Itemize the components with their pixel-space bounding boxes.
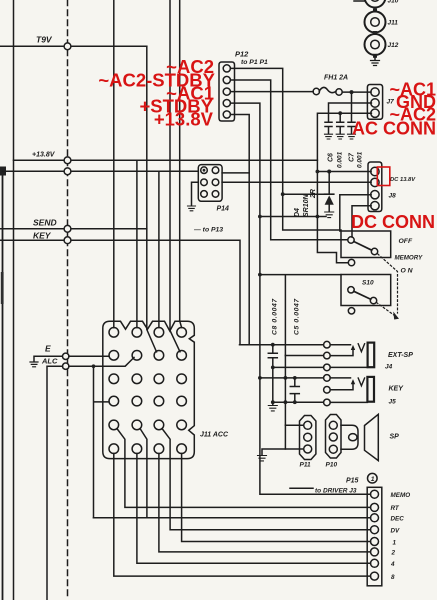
wire J12 to ground bbox=[374, 55, 376, 60]
ground D4 anode bbox=[325, 212, 334, 218]
svg-text:MEMO: MEMO bbox=[391, 492, 411, 499]
svg-text:KEY: KEY bbox=[33, 231, 52, 241]
connector J7 body bbox=[367, 85, 382, 120]
wire E to ACC r2c1 bbox=[69, 355, 109, 357]
wire junction down to cap bbox=[339, 113, 341, 122]
svg-text:OFF: OFF bbox=[399, 238, 413, 245]
wire left edge vertical bbox=[2, 171, 4, 600]
svg-text:to DRIVER J3: to DRIVER J3 bbox=[315, 488, 357, 495]
connector P15 pin 4 bbox=[371, 526, 379, 534]
junction dot ALC branch bbox=[92, 364, 96, 368]
svg-text:S10: S10 bbox=[362, 280, 374, 287]
ACC pin r1c2 bbox=[132, 328, 142, 338]
svg-text:FH1 2A: FH1 2A bbox=[324, 75, 348, 82]
connector P12 body bbox=[219, 62, 235, 121]
connector P15 body bbox=[367, 487, 382, 586]
connector P14 pin 4 bbox=[212, 179, 219, 186]
svg-text:SP: SP bbox=[390, 434, 400, 441]
connector J8 pin 1 bbox=[371, 167, 379, 175]
svg-text:— to P13: — to P13 bbox=[193, 227, 223, 234]
wire bus vertical to ACC col2 from 13.8V line bbox=[136, 160, 138, 327]
ground P11 feed bbox=[258, 456, 267, 461]
svg-text:4: 4 bbox=[390, 561, 395, 568]
wire bus vertical to ACC col1 bbox=[113, 0, 115, 328]
node circle EXT sleeve bbox=[324, 352, 331, 359]
junction dot C8 bottom bbox=[271, 400, 275, 404]
svg-text:to P1 P1: to P1 P1 bbox=[241, 59, 268, 66]
svg-text:EXT-SP: EXT-SP bbox=[388, 352, 413, 359]
switch lower arm bbox=[354, 291, 371, 299]
scan mark left edge bbox=[1, 272, 4, 304]
wire left bus vertical 1 bbox=[13, 0, 15, 600]
wire ACC r5c2 diagonal down to P15 pin3 line bbox=[140, 429, 147, 518]
svg-text:2R: 2R bbox=[310, 189, 317, 199]
wire P11 pin3 feed with ground bbox=[262, 449, 303, 455]
junction dot pin4 vertical y216 bbox=[258, 215, 262, 219]
dotted linkage upper bbox=[378, 254, 398, 313]
svg-text:C7: C7 bbox=[349, 152, 356, 162]
svg-text:DV: DV bbox=[391, 528, 401, 535]
jack J4 arrow bbox=[330, 349, 353, 356]
ACC pin r6c4 bbox=[177, 444, 187, 454]
connector P10 pin 3 bbox=[329, 445, 337, 453]
ground P14 bbox=[188, 206, 196, 211]
arrowhead linkage bbox=[393, 312, 399, 320]
svg-text:D4: D4 bbox=[294, 208, 301, 217]
node square between J10 and J11 bbox=[373, 8, 377, 12]
wire bus vertical to ACC r2c4 (diagonal at bottom) bbox=[170, 0, 180, 352]
ACC pin r2c4 bbox=[177, 351, 187, 361]
ACC pin r1c4 bbox=[177, 328, 187, 338]
ACC pin r3c2 bbox=[132, 374, 142, 384]
junction dot C5 top bbox=[293, 376, 297, 380]
wire T9V horizontal bbox=[0, 45, 147, 47]
ACC pin r1c1 bbox=[109, 328, 119, 338]
connector J7 pin 2 bbox=[371, 99, 379, 107]
node circle T9V on dashed bus bbox=[64, 43, 71, 50]
capacitor C6 0.001 bbox=[337, 122, 344, 134]
connector J8 body bbox=[368, 162, 382, 212]
connector P15 pin 5 bbox=[371, 538, 379, 546]
svg-text:C6: C6 bbox=[328, 153, 335, 162]
connector P12 pin 5 bbox=[223, 111, 230, 118]
connector P10 pin 1 bbox=[329, 421, 337, 429]
junction dot D4 cathode branch on pin1 wire bbox=[327, 170, 331, 174]
wire P15 pin3 DEC horizontal bbox=[94, 517, 371, 519]
wire x285 down to P11 feed bbox=[284, 356, 286, 450]
svg-text:DEC: DEC bbox=[391, 516, 405, 523]
ground under cap C7 bbox=[348, 134, 356, 139]
wire ACC r5c1 diagonal down to P15 pin2 RT bbox=[117, 429, 371, 508]
svg-text:P15: P15 bbox=[346, 478, 359, 485]
svg-text:E: E bbox=[45, 344, 51, 354]
wire fuse junction down to cap bbox=[351, 92, 353, 122]
wire P14 ground stub bbox=[192, 182, 199, 205]
switch upper throw contact bbox=[371, 248, 377, 254]
wire P14 to J8 pin2 bbox=[222, 181, 371, 183]
svg-text:J11: J11 bbox=[388, 20, 399, 27]
wire from pin4-vertical to D4 ground area bbox=[260, 216, 326, 218]
wire ALC right with diagonal to ACC r2c2 bbox=[69, 357, 134, 366]
svg-text:RT: RT bbox=[391, 505, 400, 512]
wire EXT-SP tip line bbox=[240, 344, 324, 346]
svg-text:0.001: 0.001 bbox=[337, 151, 344, 168]
svg-text:DC CONN: DC CONN bbox=[351, 212, 435, 232]
switch lower pole contact bbox=[348, 287, 354, 293]
connector P11 body bbox=[300, 416, 316, 460]
annotation red box DC 13.8V bbox=[377, 167, 390, 186]
connector P14 pin 3 bbox=[201, 179, 208, 186]
connector J7 pin 3 bbox=[371, 109, 379, 117]
node square between J11 and J12 bbox=[373, 31, 377, 35]
switch upper arm bbox=[354, 242, 372, 251]
svg-text:1: 1 bbox=[371, 476, 375, 483]
svg-text:0.001: 0.001 bbox=[357, 151, 364, 168]
svg-text:J11 ACC: J11 ACC bbox=[200, 432, 229, 439]
connector P14 pin 1 (marked) bbox=[201, 167, 208, 174]
ACC pin r5c1 bbox=[109, 420, 119, 430]
node circle KEY on dashed bus bbox=[64, 237, 71, 244]
junction dot C5 bottom bbox=[293, 400, 297, 404]
node square below J12 bbox=[373, 54, 377, 58]
junction dot on J7 pin3 wire bbox=[338, 111, 342, 115]
node circle ALC terminal bbox=[62, 363, 68, 369]
ACC pin r5c4 bbox=[177, 420, 187, 430]
connector P12 pin 2 bbox=[223, 76, 230, 83]
svg-text:C5 0.0047: C5 0.0047 bbox=[294, 298, 301, 335]
wire KEY ring line bbox=[273, 401, 324, 403]
wire EXT-SP ring line from C8 bbox=[273, 366, 324, 368]
svg-text:SR10N: SR10N bbox=[303, 193, 310, 217]
node circle EXT ring bbox=[324, 364, 331, 371]
capacitor at x328.5 bbox=[325, 122, 332, 134]
node circle y171 on dashed bus bbox=[64, 168, 71, 175]
capacitor C8 0.0047 bbox=[268, 345, 277, 403]
wire ACC r6c4 down to P15 pin5 bbox=[182, 454, 371, 542]
wire P12 pin4 down long to P15 MEMO bbox=[230, 103, 370, 494]
junction dot D4 cathode wire on P12 pin1 vertical bbox=[281, 192, 285, 196]
connector P14 pin 5 bbox=[201, 191, 208, 198]
junction dot C8 at EXT sleeve2 line bbox=[271, 366, 275, 370]
svg-text:T9V: T9V bbox=[36, 35, 53, 45]
node circle KEY ring bbox=[324, 399, 331, 406]
junction dot x285 on KEY tip line bbox=[284, 376, 288, 380]
svg-text:J4: J4 bbox=[385, 364, 393, 371]
ACC pin r6c1 bbox=[109, 444, 119, 454]
wire branch y274.6 right to switch box and down to EXT-SP sleeve line bbox=[260, 275, 341, 356]
wire KEY ring to bar bbox=[330, 401, 367, 403]
junction dot rail at pin1 wire bbox=[316, 170, 320, 174]
wire P10 loop to speaker bbox=[341, 425, 358, 449]
junction dot x285 on KEY ring line bbox=[284, 400, 288, 404]
ground under cap C6 bbox=[336, 134, 344, 139]
connector P12 pin 4 bbox=[223, 100, 230, 107]
wire ALC left then down to page bottom bbox=[47, 366, 63, 600]
wire KEY tip line bbox=[260, 377, 324, 379]
ACC pin r5c2 bbox=[132, 420, 142, 430]
wire SEND horizontal bbox=[0, 228, 147, 230]
svg-text:ALC: ALC bbox=[41, 357, 58, 366]
ground below J12 bbox=[371, 61, 380, 66]
junction dot pin4 line KEY-tip branch bbox=[258, 376, 262, 380]
wire P12 pin1 right, down, to switch box top bbox=[230, 68, 341, 230]
dotted linkage lower diagonal bbox=[377, 303, 395, 316]
svg-text:DC 13.8V: DC 13.8V bbox=[390, 177, 416, 183]
connector J11 ACC body bbox=[103, 321, 195, 458]
ACC pin r2c3 bbox=[154, 351, 164, 361]
wire P11 pin1 feed bbox=[285, 424, 302, 426]
wire fuse to J7 pin1 bbox=[342, 91, 371, 93]
ACC pin r6c3 bbox=[154, 444, 164, 454]
ACC pin r2c1 bbox=[109, 351, 119, 361]
wire C8 to ground bbox=[272, 402, 274, 405]
fuse FH1 2A bbox=[313, 87, 342, 95]
connector P15 pin 1 bbox=[371, 490, 379, 498]
switch upper pole contact bbox=[348, 237, 354, 243]
ACC pin r1c3 bbox=[154, 328, 164, 338]
diode D4 (cathode up) bbox=[325, 172, 334, 212]
node circle SEND on dashed bus bbox=[64, 225, 71, 232]
ACC pin r4c3 bbox=[154, 396, 164, 406]
connector P14 body bbox=[198, 165, 222, 202]
connector P10 pin 2 bbox=[329, 433, 337, 441]
speaker SP bbox=[365, 414, 379, 460]
wire dashed bus vertical bbox=[67, 0, 69, 600]
svg-text:J12: J12 bbox=[388, 42, 399, 49]
svg-text:C8 0.0047: C8 0.0047 bbox=[272, 298, 279, 335]
node circle KEY sleeve bbox=[324, 387, 331, 394]
svg-text:2: 2 bbox=[391, 550, 396, 557]
wire ACC r6c1 down to P15 pin8 bbox=[114, 454, 371, 577]
wire branch down to ACC r4c1 and P15 pin3 line bbox=[94, 366, 110, 518]
connector J8 pin 2 bbox=[371, 178, 379, 186]
svg-text:+13.8V: +13.8V bbox=[32, 152, 56, 159]
jack J12 bbox=[365, 34, 386, 55]
svg-text:J10: J10 bbox=[388, 0, 399, 5]
connector J7 pin 1 bbox=[371, 88, 379, 96]
wire P12-pin1 vertical to D4 cathode bbox=[283, 193, 325, 195]
svg-text:P10: P10 bbox=[326, 462, 338, 469]
capacitor C5 0.0047 bbox=[290, 378, 299, 402]
node circle KEY tip bbox=[324, 375, 331, 382]
jack J5 arrow bbox=[330, 383, 353, 390]
wire J8 pin3 left then down to switch box bbox=[340, 195, 371, 231]
wire horizontal y171 to P14 bbox=[3, 170, 199, 172]
ACC pin r3c3 bbox=[154, 374, 164, 384]
switch lower throw contact bbox=[370, 297, 376, 303]
jack J10 (partially visible) bbox=[354, 0, 386, 8]
wire EXT tip line bbox=[330, 344, 350, 346]
node circle 13.8V on dashed bus bbox=[64, 157, 71, 164]
connector J8 pin 4 bbox=[371, 202, 379, 210]
ACC pin r4c1 bbox=[109, 396, 119, 406]
ACC pin r3c4 bbox=[177, 374, 187, 384]
connector P12 pin 1 bbox=[223, 65, 230, 72]
jack J5 bar bbox=[367, 377, 374, 402]
svg-text:+13.8V: +13.8V bbox=[154, 109, 214, 130]
svg-text:MEMORY: MEMORY bbox=[395, 255, 424, 262]
connector P10 body bbox=[326, 415, 342, 459]
switch S10 lower section box bbox=[341, 275, 391, 306]
capacitor C7 0.001 bbox=[348, 122, 355, 134]
wire EXT ring to bar bbox=[330, 366, 367, 368]
connector J8 pin 3 bbox=[371, 191, 379, 199]
pin1 indicator circled 1 bbox=[368, 473, 378, 483]
switch bottom contact bbox=[348, 308, 354, 314]
connector P11 pin 3 bbox=[304, 445, 312, 453]
ground E terminal bbox=[30, 362, 38, 367]
connector P15 pin 3 bbox=[371, 514, 379, 522]
node blob left edge on 171 wire bbox=[0, 167, 6, 176]
wire P12 pin3 to fuse FH1 bbox=[230, 91, 313, 93]
svg-text:P11: P11 bbox=[300, 462, 311, 469]
svg-text:1: 1 bbox=[393, 539, 397, 546]
wire ACC r6c2 down to P15 pin7 bbox=[137, 454, 371, 564]
svg-text:J8: J8 bbox=[389, 193, 397, 200]
node circle EXT tip bbox=[324, 341, 331, 348]
switch middle contact bbox=[348, 259, 354, 265]
connector P14 pin 2 bbox=[212, 167, 219, 174]
wire rail to J8 pin1 bbox=[317, 171, 371, 173]
wire +13.8V horizontal to rail bbox=[14, 159, 318, 161]
node circle E terminal bbox=[62, 353, 68, 359]
wire bus vertical to ACC col3 from y171 line bbox=[158, 171, 160, 327]
wire ACC r5c3 diagonal down to P15 pin4 DV bbox=[162, 429, 370, 530]
wire EXT sleeve from x285 corner bbox=[285, 355, 323, 357]
wire E terminal to ground bbox=[34, 356, 63, 361]
junction dot C8 top bbox=[271, 343, 275, 347]
svg-text:P12: P12 bbox=[235, 50, 249, 59]
junction dot fuse output bbox=[350, 90, 354, 94]
junction dot pin4 line y274.6 bbox=[258, 273, 262, 277]
wire dash before to DRIVER J3 bbox=[290, 487, 313, 489]
ACC pin r4c4 bbox=[177, 396, 187, 406]
connector P11 pin 2 bbox=[304, 433, 312, 441]
svg-text:O N: O N bbox=[401, 268, 414, 275]
wire J7 pin3 left then down (main rail) to switch center contact bbox=[317, 113, 371, 263]
svg-text:P14: P14 bbox=[217, 206, 230, 213]
connector P15 pin 7 bbox=[371, 559, 379, 567]
ACC pin r5c3 bbox=[154, 420, 164, 430]
switch S10 upper section box bbox=[341, 231, 391, 258]
ACC pin r3c1 bbox=[109, 374, 119, 384]
wire J7 pin2 left then down to cap bbox=[329, 103, 372, 122]
jack J4 bar bbox=[368, 343, 375, 368]
connector P15 pin 6 bbox=[371, 548, 379, 556]
svg-text:SEND: SEND bbox=[33, 218, 57, 228]
svg-text:8: 8 bbox=[391, 574, 395, 581]
wire P12 pin2 right, down, to switch contact bbox=[230, 80, 347, 240]
svg-text:KEY: KEY bbox=[389, 386, 405, 393]
svg-text:AC CONN: AC CONN bbox=[352, 119, 436, 139]
wire KEY horizontal then down to EXT-SP line bbox=[0, 240, 240, 345]
ground below C8 bbox=[268, 406, 277, 411]
ACC pin r2c2 bbox=[132, 351, 142, 361]
connector P15 pin 2 bbox=[371, 503, 379, 511]
wire bus vertical to ACC col4 bbox=[180, 0, 182, 328]
ground under cap x328.5 bbox=[325, 134, 333, 139]
connector P11 pin 1 bbox=[304, 421, 312, 429]
wire J8 pin4 left then down to switch contact bbox=[352, 206, 371, 237]
wire P12 pin5 right then down to P14 wire and EXT-SP tip line bbox=[230, 115, 249, 345]
wire P14 pin2 to P12 pin5 vertical bbox=[222, 172, 249, 174]
ACC pin r6c2 bbox=[132, 444, 142, 454]
junction dot rail at D4 ground wire bbox=[316, 215, 320, 219]
ACC pin r4c2 bbox=[132, 396, 142, 406]
wire KEY tip line bbox=[330, 377, 350, 379]
jack J11 bbox=[365, 12, 386, 33]
svg-text:J5: J5 bbox=[389, 399, 397, 406]
wire bus vertical to ACC r2c3 (diagonal at bottom) bbox=[147, 46, 157, 352]
connector P12 pin 3 bbox=[223, 88, 230, 95]
wire ACC r6c3 down to P15 pin6 bbox=[159, 454, 371, 552]
connector P14 pin 6 bbox=[212, 191, 219, 198]
connector P15 pin 8 bbox=[371, 572, 379, 580]
connector bump on P10 loop bbox=[349, 434, 357, 441]
